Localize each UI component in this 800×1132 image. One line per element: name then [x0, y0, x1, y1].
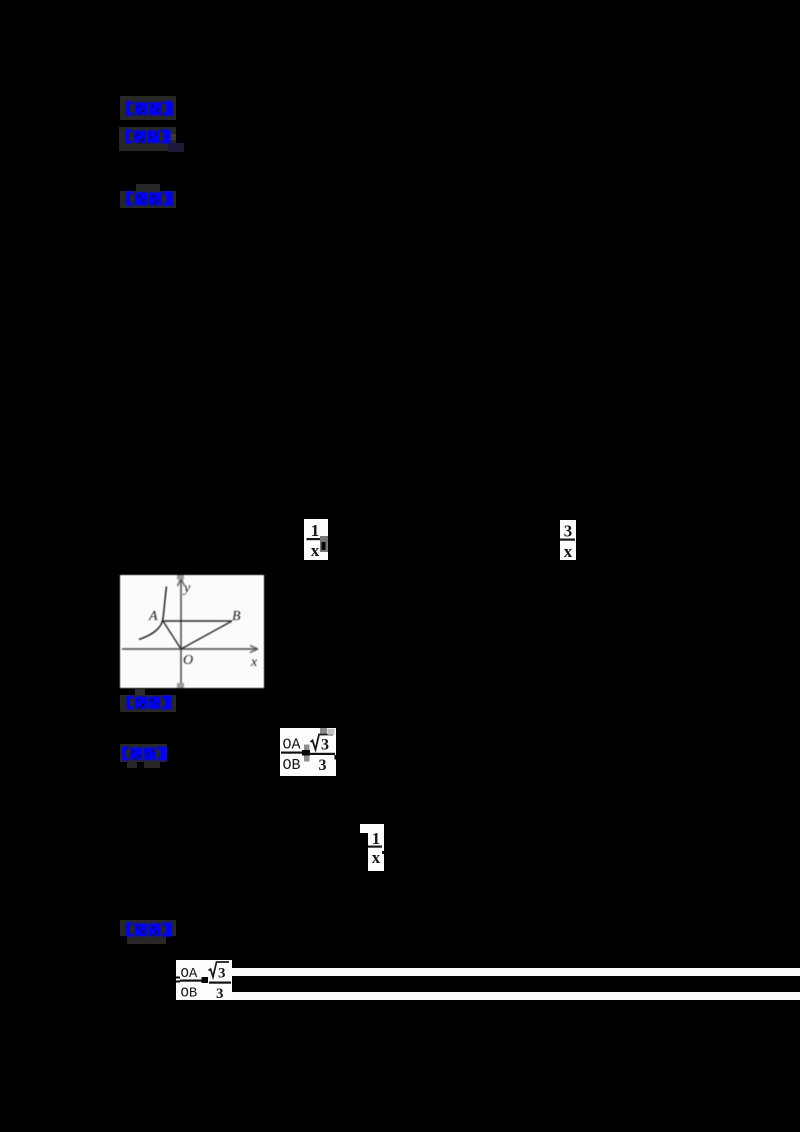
- equation image =OA/OB=sqrt3/3 (bottom): [176, 960, 232, 1000]
- label 【考点】 line2: [125, 695, 173, 715]
- equation image 1/x (first): [304, 519, 328, 560]
- label 【解答】 line1: [125, 190, 174, 212]
- triangle AOB: [163, 621, 232, 649]
- svg-text:3: 3: [319, 757, 327, 774]
- line highlight 2: [119, 127, 176, 151]
- svg-text:x: x: [564, 542, 573, 560]
- label 【考点】 line1: [125, 100, 174, 122]
- equation image 1/x (second, L-shaped): [360, 824, 384, 833]
- svg-text:1: 1: [311, 521, 320, 540]
- svg-text:3: 3: [218, 966, 226, 982]
- line highlight 1: [120, 96, 176, 120]
- line highlight 4: [120, 695, 176, 712]
- svg-text:OB: OB: [181, 986, 198, 1001]
- hyperbola branch: [139, 587, 167, 640]
- equation image OA/OB=sqrt3/3 (first): [280, 728, 336, 776]
- small highlight above line3: [136, 184, 160, 191]
- white bar A: [232, 968, 800, 976]
- white bar B: [232, 992, 800, 1000]
- svg-text:x: x: [311, 541, 320, 560]
- label 【解答】 line2: [125, 921, 173, 943]
- svg-text:OA: OA: [283, 737, 301, 754]
- svg-text:3: 3: [216, 986, 224, 1000]
- label 【分析】 line2: [121, 746, 168, 766]
- svg-text:B: B: [232, 609, 241, 624]
- svg-text:3: 3: [321, 737, 329, 754]
- svg-text:x: x: [250, 655, 258, 670]
- line highlight 5: [120, 744, 167, 762]
- dark handle below figure: [135, 689, 145, 695]
- navy selection box: [168, 143, 184, 152]
- svg-text:OB: OB: [283, 757, 301, 774]
- y axis: [122, 579, 257, 685]
- svg-text:A: A: [148, 609, 158, 624]
- svg-text:3: 3: [564, 522, 573, 541]
- line highlight 6: [120, 920, 176, 936]
- label 【分析】 line1: [124, 129, 172, 149]
- labels: [148, 581, 258, 670]
- line highlight 3: [120, 191, 176, 208]
- handles: [177, 575, 184, 580]
- figure: hyperbola with triangle AOB: [120, 575, 264, 688]
- svg-text:y: y: [182, 581, 191, 596]
- equation image 3/x: [560, 520, 576, 560]
- svg-text:O: O: [183, 653, 193, 668]
- svg-text:x: x: [372, 848, 381, 867]
